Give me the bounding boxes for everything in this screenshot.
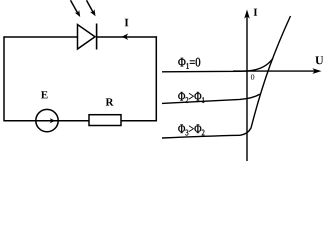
photodiode VD: [78, 24, 97, 50]
light arrow 1: [71, 0, 81, 17]
label 0 (origin): [251, 74, 254, 79]
curve phi1 flat: [162, 70, 248, 73]
wire right: [155, 36, 157, 121]
wire top-right segment: [97, 36, 158, 38]
curve phi2 rise: [247, 94, 260, 99]
curve phi3 rise + shared steep branch: [240, 16, 291, 135]
wire bottom-middle segment: [59, 120, 89, 122]
resistor R: [89, 115, 121, 126]
axis U (horizontal): [233, 70, 315, 72]
axis U arrowhead: [312, 68, 321, 74]
current arrow I: [122, 33, 128, 40]
wire top-left segment: [4, 36, 78, 38]
wire bottom-right segment: [121, 120, 157, 122]
label phi2>phi1: [178, 92, 204, 103]
source E wire through: [36, 120, 58, 122]
axis I arrowhead: [244, 10, 250, 19]
label E: [41, 91, 48, 98]
label phi1=0: [178, 58, 200, 69]
curve phi2 flat: [162, 99, 247, 104]
curve phi3 flat: [162, 135, 240, 138]
label I (circuit): [125, 19, 129, 27]
source E circle: [36, 109, 58, 131]
source E arrow: [50, 118, 55, 123]
light arrow 2: [87, 0, 96, 16]
label U: [315, 56, 323, 64]
curve phi1 rise: [248, 59, 273, 71]
axis I (vertical): [246, 14, 248, 161]
wire bottom-left segment: [4, 120, 36, 122]
label phi3>phi2: [178, 124, 204, 135]
wire left: [3, 36, 5, 121]
label R: [106, 98, 114, 105]
label I (graph): [254, 9, 258, 16]
